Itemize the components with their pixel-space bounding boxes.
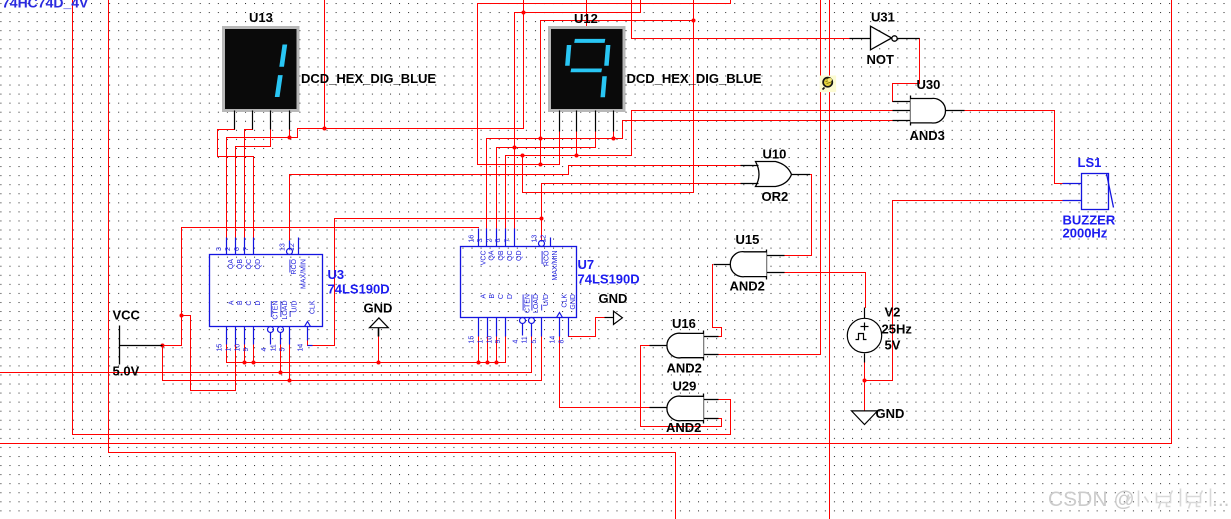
svg-text:QD: QD (255, 259, 262, 270)
svg-text:U10: U10 (763, 147, 787, 162)
svg-text:9: 9 (495, 340, 502, 344)
wire: U7 pin A riser (478, 337, 480, 363)
wire: U29 in a riser from y=434.8 (719, 400, 731, 435)
wire: ground rail y=362.9 U3 A C D to U7 A B C D (227, 337, 506, 363)
wire: H2 net U12 pin c to QB (497, 132, 596, 229)
clock source V2 (847, 308, 881, 363)
OR2 gate U10 (741, 162, 811, 187)
wire: H3 net U12 pin b to QC (506, 132, 632, 229)
wire: U7 GND pin to arrow (569, 318, 605, 337)
svg-text:MAX/MIN: MAX/MIN (301, 259, 308, 289)
wire: U13 pin4 red tail (289, 130, 291, 138)
svg-text:CLK: CLK (309, 300, 316, 314)
wire: U3 CLK stub run (307, 341, 309, 346)
svg-text:U29: U29 (673, 379, 697, 394)
wire: VCC branch down to U/D rail (163, 337, 542, 381)
svg-text:RCO: RCO (543, 250, 550, 266)
net marker yellow ball (820, 76, 836, 93)
counter U7 74LS190D (461, 229, 640, 344)
VCC symbol (120, 326, 163, 365)
U7 CLK stub and wedge (559, 318, 561, 337)
svg-text:QB: QB (498, 250, 505, 260)
U3 pin names (228, 258, 317, 319)
wire: left vertical net 2 down to bottom row (109, 1, 676, 519)
wire: vertical from top to U13 pin4 net (324, 1, 326, 129)
svg-text:14: 14 (550, 336, 557, 344)
wire: U16 in b line to x=820.7 vertical (719, 1, 821, 355)
svg-text:QB: QB (237, 259, 244, 269)
svg-text:6: 6 (495, 239, 502, 243)
svg-text:DCD_HEX_DIG_BLUE: DCD_HEX_DIG_BLUE (627, 71, 762, 86)
svg-text:11: 11 (270, 344, 277, 351)
svg-text:CLK: CLK (561, 294, 568, 308)
svg-text:B: B (489, 294, 496, 299)
svg-text:QC: QC (507, 251, 514, 262)
svg-text:AND2: AND2 (667, 361, 702, 376)
U7 RCO stub with bubble (539, 241, 545, 247)
wire: NOT output jog to AND3 in1 (893, 39, 920, 102)
svg-text:3: 3 (477, 239, 484, 243)
wire: OR2 in1 line from U3 RCO (290, 166, 741, 241)
svg-text:11: 11 (521, 336, 528, 343)
wire: NOT gate input line (632, 1, 850, 39)
U3 U/D stub (289, 327, 291, 345)
svg-text:MAX/MIN: MAX/MIN (552, 251, 559, 281)
pin name overlines (271, 251, 542, 317)
svg-text:LOAD: LOAD (533, 294, 540, 313)
wire: U12 pin d stub red (613, 132, 615, 139)
U12 segment g (571, 69, 603, 73)
wire: AND3 in3 line (623, 121, 893, 139)
wire: VCC branch to U3 pin B (182, 316, 236, 391)
wire: top loop y=12.1 QD net (515, 1, 641, 238)
AND2 gate U29 (mirrored) (650, 394, 719, 424)
svg-text:C: C (498, 294, 505, 299)
U7 pin names (480, 250, 577, 313)
svg-text:2000Hz: 2000Hz (1063, 226, 1108, 241)
U12 segment f (565, 45, 571, 66)
svg-text:5: 5 (280, 348, 287, 352)
svg-text:OR2: OR2 (762, 189, 789, 204)
wire: U7 CLK riser down to U29 output (560, 337, 650, 408)
U12 segment a (574, 39, 605, 43)
U13 pins (235, 111, 290, 130)
svg-text:3: 3 (216, 247, 223, 251)
wire: OR2 in2 line from U7 RCO (542, 184, 741, 241)
ground symbol at U3 (up arrow) (370, 318, 389, 337)
wire: top loop y=3.5 to U12 pin a (478, 1, 731, 165)
svg-text:A: A (228, 300, 235, 305)
U13 segment c (275, 75, 283, 97)
svg-text:CTEN: CTEN (273, 301, 280, 320)
svg-text:74LS190D: 74LS190D (328, 282, 390, 297)
svg-text:U7: U7 (578, 257, 595, 272)
svg-text:74LS190D: 74LS190D (578, 272, 640, 287)
wire: U15 in b line to V2 top (785, 273, 866, 308)
svg-text:GND: GND (364, 301, 393, 316)
svg-text:D: D (507, 294, 514, 299)
U3 RCO pin stub with bubble (289, 241, 291, 249)
wire: V2 bottom to buzzer bottom pin (865, 201, 1063, 411)
wire: U3 LOAD riser (280, 345, 282, 373)
svg-text:QD: QD (516, 251, 523, 262)
svg-text:DCD_HEX_DIG_BLUE: DCD_HEX_DIG_BLUE (301, 71, 436, 86)
wire: H1 net U12 pin d to QA (487, 139, 623, 229)
wire: long vertical x=829 full height (829, 1, 831, 519)
svg-text:RCO: RCO (291, 258, 298, 274)
watermark CSDN (1048, 488, 1230, 511)
wire: U16 output riser to U29 in b (641, 346, 722, 427)
svg-text:AND2: AND2 (730, 279, 765, 294)
AND3 gate U30 (893, 96, 965, 126)
U7 LOAD stub with bubble (529, 318, 535, 324)
U3 CLK stub and wedge (307, 327, 309, 341)
U7 pin numbers (469, 235, 566, 344)
svg-text:12: 12 (289, 243, 296, 251)
svg-text:74HC74D_4V: 74HC74D_4V (2, 0, 89, 11)
wire: U7 pin B riser (487, 337, 489, 363)
svg-text:GND: GND (599, 291, 628, 306)
wire: AND3 in2 line (632, 111, 893, 156)
svg-text:GND: GND (876, 406, 905, 421)
svg-text:16: 16 (469, 235, 476, 243)
svg-text:CTEN: CTEN (524, 294, 531, 313)
wire: U3 U/D riser (289, 345, 291, 381)
U7 bottom stubs (478, 318, 480, 337)
wire: long vertical x=694 from top to y=192.1 (523, 1, 694, 193)
U3 MAX/MIN pin stub (298, 238, 300, 255)
ground symbol at V2 (852, 411, 878, 425)
wire: vertical from y=20.1 through H1 to pin-a jog (541, 21, 695, 165)
ground symbol at U7 (right arrow) (605, 311, 623, 324)
display U12 (550, 11, 762, 132)
svg-text:10: 10 (486, 336, 493, 344)
svg-text:QC: QC (246, 259, 253, 270)
svg-text:QA: QA (489, 250, 496, 260)
svg-text:8: 8 (558, 340, 565, 344)
svg-text:VCC: VCC (480, 251, 487, 266)
svg-text:AND3: AND3 (910, 128, 945, 143)
svg-text:A: A (480, 294, 487, 299)
svg-text:D: D (255, 301, 262, 306)
svg-text:U3: U3 (328, 267, 345, 282)
wire: U3 pin D riser (253, 345, 255, 363)
svg-text:CSDN @: CSDN @ (1048, 488, 1135, 511)
svg-text:7: 7 (504, 239, 511, 243)
svg-text:1: 1 (477, 340, 484, 344)
junction dots (323, 127, 327, 131)
AND2 gate U15 (mirrored) (714, 250, 785, 280)
svg-text:U12: U12 (574, 11, 598, 26)
U3 CTEN stub with bubble (268, 327, 274, 333)
AND2 gate U16 (mirrored) (650, 331, 719, 361)
U3 bottom pin stubs (226, 327, 228, 345)
svg-text:7: 7 (243, 247, 250, 251)
svg-text:9: 9 (243, 348, 250, 352)
svg-text:QA: QA (228, 259, 235, 269)
display U13 (224, 10, 437, 130)
svg-text:15: 15 (469, 336, 476, 344)
svg-text:4: 4 (261, 348, 268, 352)
U7 VCC stub (478, 229, 480, 247)
U13 segment b (279, 45, 287, 67)
svg-text:5.0V: 5.0V (113, 364, 140, 379)
wire: U13 pin3 path to U3 QB (236, 130, 271, 238)
svg-text:13: 13 (279, 243, 286, 251)
svg-text:U/D: U/D (543, 294, 550, 306)
svg-text:2: 2 (225, 247, 232, 251)
svg-text:V2: V2 (885, 305, 901, 320)
svg-text:LOAD: LOAD (282, 301, 289, 320)
svg-text:14: 14 (298, 344, 305, 352)
wire: U13 pin4 riser to y=12.1 net (227, 13, 524, 238)
svg-text:4: 4 (513, 340, 520, 344)
svg-text:VCC: VCC (113, 308, 141, 323)
svg-text:1: 1 (225, 348, 232, 352)
svg-text:AND2: AND2 (666, 420, 701, 435)
svg-text:U31: U31 (871, 10, 895, 25)
U3 pin numbers (216, 243, 305, 351)
wire: VCC feed to U7 pin16 (163, 228, 479, 346)
svg-text:6: 6 (234, 247, 241, 251)
wire: left vertical net 1 down to AND2 U29 row (73, 1, 731, 435)
counter U3 74LS190D (210, 238, 390, 352)
wire: U3 pin C riser (244, 345, 246, 363)
svg-text:U13: U13 (249, 10, 273, 25)
svg-text:15: 15 (217, 344, 224, 352)
wire: U7 RCO to U3 CLK link (313, 219, 542, 346)
svg-text:C: C (246, 301, 253, 306)
svg-text:12: 12 (540, 235, 547, 243)
NOT gate U31 (850, 26, 920, 50)
wire: U3 GND stem (378, 337, 380, 363)
wire: U12 label vertical (586, 1, 588, 29)
U7 QA-QD stubs (486, 229, 488, 247)
svg-text:13: 13 (532, 235, 539, 243)
wire: U13 pin1 path to U3 QD (218, 130, 254, 238)
svg-text:U/D: U/D (291, 301, 298, 313)
svg-text:10: 10 (235, 344, 242, 352)
wire: U7 pin C riser (496, 337, 498, 363)
svg-text:25Hz: 25Hz (882, 322, 913, 337)
svg-text:B: B (237, 300, 244, 305)
svg-text:5V: 5V (885, 338, 901, 353)
svg-text:LS1: LS1 (1078, 155, 1102, 170)
U7 MAX/MIN stub (550, 238, 552, 247)
wire: AND3 output to buzzer top pin (965, 111, 1063, 184)
svg-text:U15: U15 (736, 232, 760, 247)
wire: top stub joining y=12.1 (523, 1, 525, 13)
wire: LOAD rail y=372 from left edge to U7 LOAD (1, 337, 532, 373)
U7 GND stub (568, 318, 570, 337)
U12 segment b (604, 45, 610, 66)
U12 segment c (601, 76, 607, 97)
svg-text:U30: U30 (917, 77, 941, 92)
svg-text:U16: U16 (672, 316, 696, 331)
U12 pins (560, 111, 614, 132)
U3 LOAD stub with bubble (278, 327, 284, 333)
wire: U15 output riser to U16 in a (713, 265, 722, 337)
svg-text:2: 2 (486, 239, 493, 243)
svg-text:...: ... (1212, 488, 1230, 511)
buzzer LS1 (1063, 174, 1114, 210)
U7 CTEN stub with bubble (520, 318, 526, 324)
wire: U13 pin2 path to U3 QC (245, 130, 253, 238)
svg-text:5: 5 (531, 340, 538, 344)
svg-text:NOT: NOT (867, 52, 895, 67)
U3 top pin stubs (226, 238, 228, 255)
svg-text:GND: GND (570, 294, 577, 310)
wire: OR2 output riser to U15 in a (785, 175, 812, 256)
U7 U/D stub (541, 318, 543, 337)
